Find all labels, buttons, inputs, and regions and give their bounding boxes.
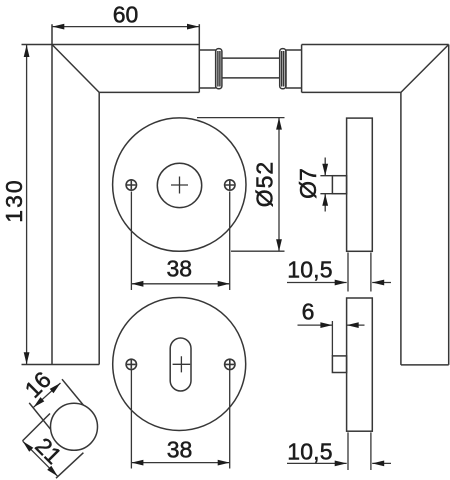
svg-text:Ø52: Ø52 — [251, 161, 277, 207]
svg-text:Ø7: Ø7 — [295, 168, 321, 199]
svg-text:10,5: 10,5 — [287, 439, 333, 465]
svg-text:10,5: 10,5 — [287, 257, 333, 283]
svg-text:60: 60 — [113, 2, 139, 28]
svg-text:38: 38 — [167, 437, 193, 463]
svg-text:38: 38 — [167, 256, 193, 282]
svg-text:130: 130 — [1, 178, 27, 222]
svg-text:16: 16 — [20, 366, 56, 402]
svg-text:6: 6 — [302, 299, 315, 325]
